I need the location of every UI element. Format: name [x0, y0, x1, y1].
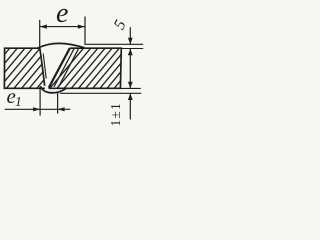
dim e1: left extension line: [39, 87, 41, 116]
weld cap: [38, 43, 85, 48]
ext line plate-bottom level: [120, 87, 140, 89]
svg-text:e: e: [56, 0, 68, 29]
dim e: dimension line: [40, 26, 85, 28]
left plate outline: [4, 48, 45, 88]
right plate hatching: [49, 48, 155, 90]
arrow down at plate-bottom: [128, 82, 133, 89]
right plate outline: [49, 48, 122, 88]
dim e1: left arrow (points right): [33, 107, 40, 111]
svg-text:1±1: 1±1: [108, 102, 123, 127]
dim e: left arrow: [40, 25, 47, 29]
dim e: left extension line: [39, 20, 41, 48]
ext line root-bottom level: [60, 92, 141, 94]
inner fusion line: [43, 54, 46, 79]
bevel fusion line: [49, 48, 70, 87]
right dimension vertical line: [129, 27, 131, 44]
arrow down at cap-top: [128, 38, 133, 45]
dim e1: right extension line: [57, 92, 59, 114]
svg-text:1: 1: [15, 94, 22, 109]
ext line cap-top level: [84, 43, 143, 45]
arrow up at root-bottom: [128, 93, 133, 100]
ext line plate-top level: [121, 48, 143, 50]
dim e: right extension line: [84, 17, 86, 44]
bevel-parallel hatch lines: [54, 48, 79, 87]
left plate hatching: [0, 48, 71, 90]
dim e: right arrow: [78, 25, 85, 29]
dim e1: right arrow (points left): [58, 107, 65, 111]
left groove wall: [40, 48, 45, 86]
root bead: [40, 86, 66, 93]
arrow up at plate-top: [128, 49, 133, 56]
dim e1: dimension line: [5, 108, 71, 110]
